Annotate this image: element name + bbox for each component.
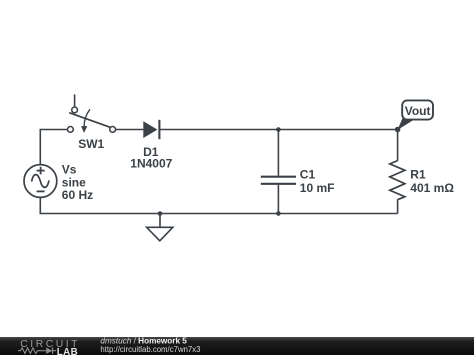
svg-text:SW1: SW1 (78, 137, 104, 151)
switch SW1 top terminal (72, 107, 78, 113)
switch SW1 right terminal (110, 126, 116, 132)
junction dot ground (158, 211, 163, 216)
switch SW1 arrowhead (81, 126, 87, 133)
capacitor C1 bottom plate (261, 183, 296, 185)
node Vout dot (395, 127, 401, 133)
wire right rail upper (397, 130, 399, 161)
svg-text:Vs: Vs (62, 162, 77, 176)
logo diode symbol (40, 348, 56, 354)
svg-text:Vout: Vout (405, 104, 431, 118)
svg-text:1N4007: 1N4007 (130, 156, 172, 170)
switch SW1 lever (69, 113, 110, 128)
wire switch to diode (116, 129, 144, 131)
wire top-left from source to switch (40, 130, 67, 165)
svg-text:10 mF: 10 mF (300, 181, 335, 195)
Vout flag tail (397, 118, 413, 130)
wire capacitor top stub (277, 130, 279, 176)
capacitor C1 top plate (261, 176, 296, 178)
svg-text:401 mΩ: 401 mΩ (410, 181, 454, 195)
wire capacitor bottom stub (277, 185, 279, 214)
voltage source Vs circle (24, 165, 57, 198)
svg-text:R1: R1 (410, 167, 426, 181)
diode D1 cathode bar (158, 120, 160, 139)
resistor R1 zigzag (390, 161, 405, 200)
Vout flag box (402, 100, 433, 119)
svg-text:60 Hz: 60 Hz (62, 188, 93, 202)
wire switch top stub (74, 94, 76, 107)
voltage source sine symbol (32, 175, 49, 188)
wire ground stub (159, 214, 161, 228)
footer bar (0, 337, 474, 355)
wire bottom rail (40, 197, 397, 213)
svg-text:sine: sine (62, 175, 86, 189)
junction dot capacitor bottom (276, 211, 281, 216)
switch SW1 arrow arc (84, 109, 90, 126)
switch SW1 left terminal (68, 126, 74, 132)
logo resistor zigzag (18, 348, 40, 354)
wire right rail lower (397, 200, 399, 214)
svg-text:C1: C1 (300, 168, 316, 182)
voltage source plus sign (37, 167, 45, 175)
svg-text:http://circuitlab.com/c7wn7x3: http://circuitlab.com/c7wn7x3 (100, 345, 200, 354)
svg-text:LAB: LAB (57, 347, 78, 355)
junction dot capacitor top (276, 127, 281, 132)
wire diode to Vout node (160, 129, 397, 131)
diode D1 triangle (143, 121, 157, 138)
voltage source minus sign (37, 190, 45, 192)
ground symbol (147, 227, 173, 241)
